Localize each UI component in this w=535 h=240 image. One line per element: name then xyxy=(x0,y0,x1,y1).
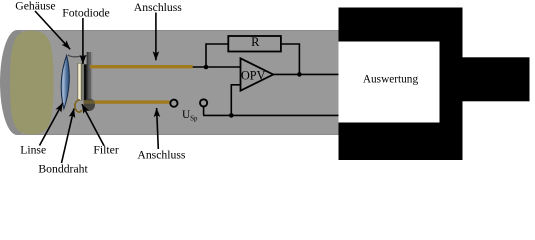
terminal circle at photodiode bottom lead xyxy=(170,100,177,107)
housing top edge xyxy=(17,29,339,32)
wire: feedback right branch down to output xyxy=(281,44,300,74)
leader arrow Filter xyxy=(82,104,104,145)
wire: feedback left branch up from input node xyxy=(206,44,228,68)
svg-text:Linse: Linse xyxy=(20,143,46,156)
anode base ellipse xyxy=(84,99,95,111)
front window (khaki ellipse) xyxy=(10,31,54,135)
photodiode holder post xyxy=(87,52,89,110)
node output junction xyxy=(297,72,302,77)
node rail junction xyxy=(229,113,234,118)
leader arrow Anschluss bottom xyxy=(157,108,159,149)
leader arrow Anschluss top xyxy=(155,13,157,61)
svg-text:OPV: OPV xyxy=(241,69,266,83)
resistor R xyxy=(228,36,281,52)
svg-text:Anschluss: Anschluss xyxy=(137,149,186,162)
svg-text:R: R xyxy=(251,35,260,49)
leader arrow Gehäuse xyxy=(35,11,70,49)
photodiode chip D1 xyxy=(84,64,87,100)
Auswertung connector block (black) xyxy=(339,8,463,161)
connector tab xyxy=(458,57,530,101)
housing bottom edge xyxy=(17,133,339,136)
Auswertung box U2 xyxy=(339,42,440,123)
leader arrow Fotodiode xyxy=(82,18,84,64)
wire: photodiode top lead to opamp input xyxy=(193,66,241,68)
housing end cap (darker gray crescent) xyxy=(0,30,34,135)
anschluss top lead (brown) xyxy=(90,65,193,68)
leader arrow Bonddraht xyxy=(62,109,75,163)
bottom lead over base blend xyxy=(84,100,95,103)
bond wire loop at base xyxy=(75,100,82,112)
bond wire xyxy=(68,55,87,57)
svg-text:Bonddraht: Bonddraht xyxy=(38,162,88,175)
anschluss bottom lead (brown) xyxy=(95,100,170,103)
op-amp U1 (OPV) xyxy=(241,58,274,90)
svg-text:Filter: Filter xyxy=(93,143,118,156)
wire: supply rail xyxy=(203,114,338,116)
wire: supply terminal drop xyxy=(203,107,205,116)
wire: non-inverting input down to supply rail xyxy=(231,85,240,116)
svg-text:Anschluss: Anschluss xyxy=(134,1,183,14)
svg-text:Auswertung: Auswertung xyxy=(363,73,419,85)
node A junction at opamp inverting input xyxy=(204,65,209,70)
housing tube body xyxy=(17,30,339,135)
shaded gap xyxy=(82,64,84,100)
leader arrow Linse xyxy=(40,103,63,146)
svg-text:Fotodiode: Fotodiode xyxy=(62,7,109,20)
filter plate with dark edges xyxy=(77,63,82,101)
terminal circle at supply rail xyxy=(200,99,207,106)
wire: opamp output to Auswertung xyxy=(273,73,339,75)
lens (blue) xyxy=(61,55,69,108)
